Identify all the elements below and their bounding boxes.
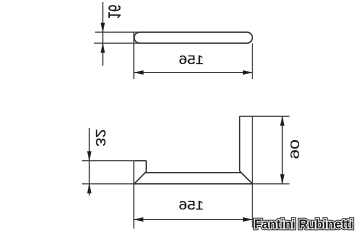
svg-text:32: 32 [92, 129, 107, 146]
svg-text:156: 156 [179, 54, 204, 67]
svg-text:156: 156 [179, 199, 204, 212]
svg-text:16: 16 [104, 4, 124, 19]
svg-text:90: 90 [287, 140, 301, 160]
svg-text:Fantini Rubinetti: Fantini Rubinetti [254, 216, 353, 231]
